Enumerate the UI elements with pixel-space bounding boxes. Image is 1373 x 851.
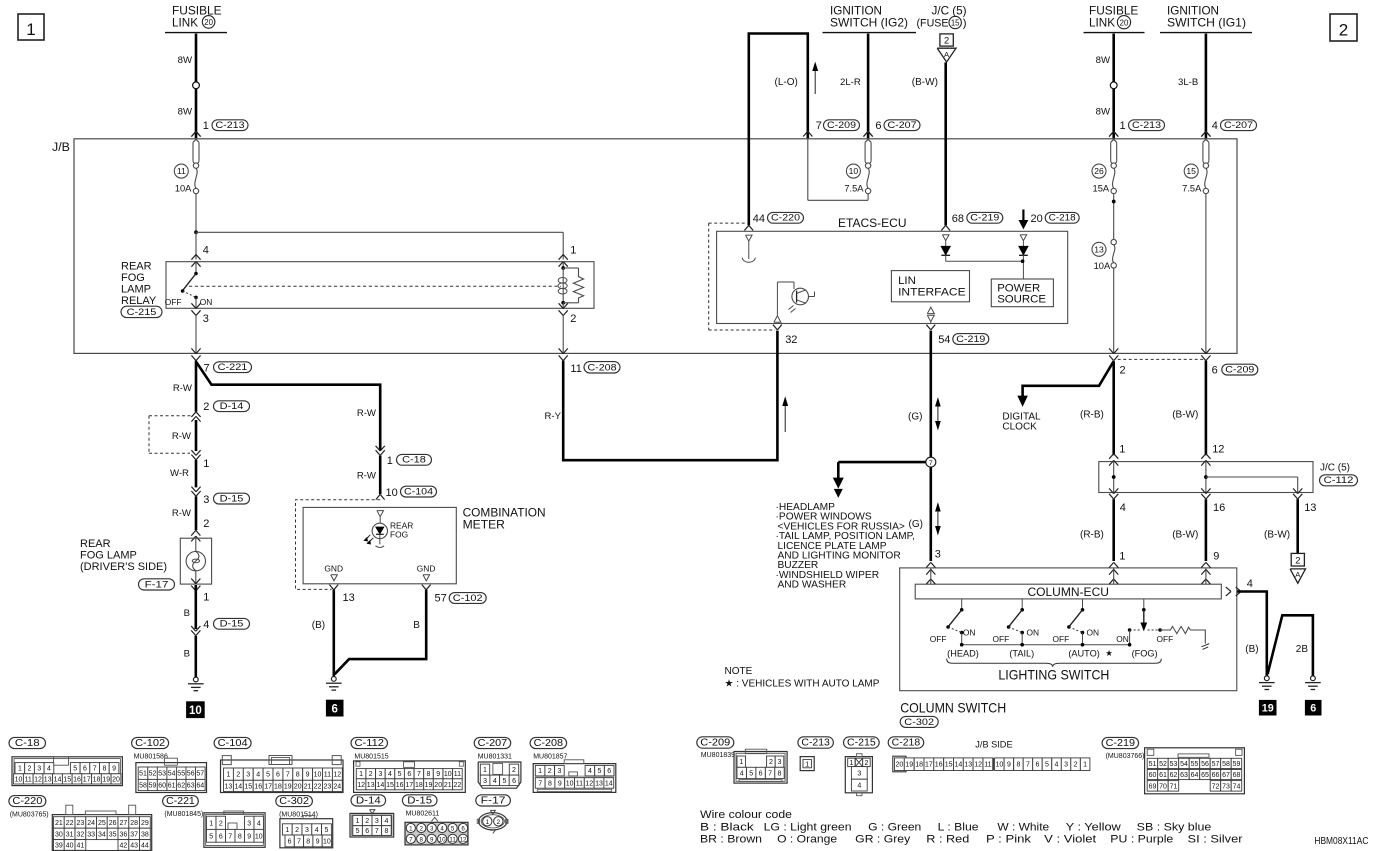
- svg-text:24: 24: [87, 820, 95, 827]
- svg-text:1: 1: [538, 768, 542, 775]
- svg-text:32: 32: [77, 831, 85, 838]
- svg-text:23: 23: [324, 783, 332, 790]
- svg-text:10: 10: [255, 833, 263, 840]
- svg-text:2: 2: [570, 313, 576, 325]
- svg-text:6: 6: [1212, 364, 1218, 376]
- svg-text:54: 54: [938, 334, 950, 346]
- svg-text:OFF: OFF: [165, 297, 182, 307]
- connector C-18 pin 1 inline arrows: [376, 446, 432, 467]
- svg-text:(MU801845): (MU801845): [164, 811, 203, 818]
- svg-text:(HEAD): (HEAD): [947, 648, 979, 658]
- svg-text:3: 3: [37, 766, 41, 773]
- page number box 2: [1330, 14, 1357, 41]
- pin 4 label relay: [203, 244, 209, 256]
- svg-text:4: 4: [740, 771, 744, 778]
- svg-text:3: 3: [203, 494, 209, 506]
- connector diagram C-302: [276, 796, 333, 848]
- svg-text:7: 7: [375, 828, 379, 835]
- lamp entry arrows: [191, 530, 200, 541]
- svg-text:C-112: C-112: [1324, 475, 1354, 486]
- svg-text:9: 9: [1213, 551, 1219, 563]
- svg-text:62: 62: [1170, 772, 1178, 779]
- connector diagram C-207: [474, 737, 521, 788]
- svg-text:1: 1: [26, 20, 35, 39]
- svg-text:2: 2: [236, 772, 240, 779]
- svg-text:3: 3: [483, 778, 487, 785]
- svg-text:2: 2: [944, 35, 949, 46]
- svg-text:60: 60: [1149, 772, 1157, 779]
- svg-text:(FOG): (FOG): [1132, 648, 1158, 658]
- svg-text:5: 5: [1045, 762, 1049, 769]
- wire 8W fusible link to J/B pin 1 C-213: [178, 34, 200, 139]
- column pin 1 entry arrows: [1109, 551, 1125, 585]
- svg-text:12: 12: [585, 781, 593, 788]
- node below fuse 26: [1112, 194, 1116, 239]
- pin 2 label rear fog lamp: [203, 518, 209, 530]
- svg-text:5: 5: [749, 771, 753, 778]
- svg-text:C-218: C-218: [892, 738, 921, 749]
- svg-text:1: 1: [570, 244, 576, 256]
- svg-text:(DRIVER'S SIDE): (DRIVER'S SIDE): [80, 561, 167, 573]
- svg-text:J/C (5): J/C (5): [1320, 462, 1350, 473]
- svg-text:7.5A: 7.5A: [844, 184, 864, 194]
- ETACS-ECU dashed boundary: [709, 223, 775, 330]
- svg-text:10: 10: [439, 836, 446, 843]
- ETACS pin 54 C-219 exit: [926, 325, 988, 346]
- wire B pin 57 to ground: [335, 590, 427, 674]
- wire (G) ETACS pin 54 down to node 7: [929, 331, 932, 458]
- wire (B-W) to ETACS pin 68: [912, 62, 946, 225]
- wire R-Y C-208 to ETACS pin 32: [544, 331, 777, 461]
- svg-text:(B): (B): [312, 620, 325, 631]
- svg-text:44: 44: [141, 843, 149, 850]
- svg-text:2: 2: [865, 760, 869, 767]
- wire B to ground 10: [184, 636, 196, 677]
- svg-text:64: 64: [1191, 772, 1199, 779]
- node junction at fuse11 output: [194, 230, 198, 234]
- svg-text:7: 7: [929, 460, 933, 467]
- wire R-W variant section: [172, 420, 196, 451]
- wire node down to relay pin 4: [195, 232, 197, 259]
- signal direction arrow up: [813, 64, 817, 95]
- svg-text:11: 11: [984, 762, 991, 769]
- svg-text:14: 14: [54, 776, 62, 783]
- svg-text:4: 4: [257, 820, 261, 827]
- svg-text:10: 10: [189, 705, 202, 717]
- ground symbol 6 right: [1305, 676, 1321, 690]
- svg-text:3L-B: 3L-B: [1178, 77, 1198, 88]
- ground symbol 19: [1259, 676, 1275, 690]
- svg-text:11: 11: [324, 772, 331, 779]
- svg-text:6: 6: [83, 766, 87, 773]
- svg-text:12: 12: [460, 836, 467, 843]
- svg-text:5: 5: [266, 772, 270, 779]
- svg-text:6: 6: [512, 778, 516, 785]
- svg-text:1: 1: [483, 767, 487, 774]
- svg-text:14: 14: [955, 762, 963, 769]
- svg-text:METER: METER: [463, 520, 505, 532]
- svg-text:OFF: OFF: [930, 634, 947, 644]
- svg-text:21: 21: [444, 782, 452, 789]
- label REAR FOG LAMP (DRIVERS SIDE): [80, 538, 167, 573]
- svg-text:Y : Yellow: Y : Yellow: [1066, 822, 1121, 834]
- svg-text:62: 62: [177, 783, 185, 790]
- svg-text:13: 13: [367, 782, 375, 789]
- svg-text:C-207: C-207: [478, 738, 508, 749]
- svg-text:4: 4: [256, 772, 260, 779]
- ETACS pin 44 internal antenna symbol: [742, 235, 755, 262]
- svg-text:2: 2: [203, 518, 209, 530]
- svg-text:57: 57: [1212, 761, 1220, 768]
- svg-text:ON: ON: [200, 297, 213, 307]
- svg-text:1: 1: [203, 592, 209, 604]
- svg-text:FOG: FOG: [390, 529, 408, 539]
- fuse 13 10A in J/B: [1092, 239, 1116, 270]
- svg-text:B: B: [413, 620, 420, 631]
- svg-text:63: 63: [187, 783, 195, 790]
- svg-text:1: 1: [209, 820, 213, 827]
- ETACS-ECU box: [717, 231, 1068, 323]
- svg-text:9: 9: [558, 781, 562, 788]
- relay switch contact: [181, 262, 198, 309]
- connector diagram C-213: [798, 737, 834, 771]
- svg-text:39: 39: [55, 843, 63, 850]
- pin 7 C-209 label: [816, 120, 860, 132]
- svg-text:70: 70: [1159, 783, 1167, 790]
- svg-text:(B-W): (B-W): [1172, 410, 1198, 421]
- svg-text:13: 13: [964, 762, 972, 769]
- svg-text:9: 9: [436, 771, 440, 778]
- svg-text:D-15: D-15: [220, 493, 244, 504]
- svg-text:1: 1: [285, 827, 289, 834]
- svg-text:22: 22: [454, 782, 462, 789]
- J/C pin 4 exit arrows: [1109, 488, 1126, 513]
- svg-text:61: 61: [1159, 772, 1167, 779]
- svg-text:GND: GND: [417, 563, 436, 573]
- svg-text:L : Blue: L : Blue: [938, 822, 979, 834]
- svg-text:15A: 15A: [1093, 184, 1110, 194]
- double arrow upper: [936, 399, 940, 429]
- svg-text:51: 51: [139, 771, 147, 778]
- svg-text:20: 20: [112, 776, 120, 783]
- wire 8W right fusible link to J/B pin 1 C-213: [1096, 34, 1117, 139]
- label DIGITAL CLOCK: [1002, 411, 1041, 432]
- svg-text:LINK: LINK: [172, 16, 198, 29]
- svg-text:C-221: C-221: [166, 796, 195, 807]
- junction reference box 2 top: [940, 34, 953, 46]
- svg-text:18: 18: [93, 776, 101, 783]
- svg-text:38: 38: [141, 831, 149, 838]
- svg-text:1: 1: [203, 458, 209, 470]
- svg-text:16: 16: [254, 783, 262, 790]
- svg-text:17: 17: [925, 762, 933, 769]
- svg-text:68: 68: [952, 213, 964, 225]
- svg-text:14: 14: [234, 783, 242, 790]
- svg-text:4: 4: [1055, 762, 1059, 769]
- svg-text:C-213: C-213: [1132, 120, 1161, 131]
- svg-text:(MU803766): (MU803766): [1106, 753, 1145, 760]
- connector diagram C-18: [9, 737, 122, 785]
- label ON relay: [200, 297, 213, 307]
- ground reference box 19: [1259, 700, 1276, 715]
- LIN interface output triangles: [927, 307, 934, 323]
- svg-text:MU801839: MU801839: [701, 752, 735, 759]
- svg-text:65: 65: [1201, 772, 1209, 779]
- connector diagram C-209: [697, 737, 787, 783]
- svg-text:8: 8: [102, 766, 106, 773]
- svg-text:7: 7: [768, 771, 772, 778]
- connector D-15 pin 3 inline arrows: [191, 487, 249, 507]
- page number box 1: [18, 14, 44, 40]
- svg-text:2L-R: 2L-R: [840, 77, 861, 88]
- svg-text:R : Red: R : Red: [926, 833, 969, 845]
- svg-text:59: 59: [1233, 761, 1241, 768]
- svg-text:6: 6: [219, 833, 223, 840]
- svg-text:24: 24: [333, 783, 341, 790]
- svg-text:3: 3: [935, 548, 941, 560]
- label (G) upper: [908, 411, 922, 422]
- svg-text:17: 17: [264, 783, 272, 790]
- svg-text:): ): [963, 17, 967, 29]
- svg-text:(G): (G): [909, 519, 923, 530]
- svg-text:20: 20: [294, 783, 302, 790]
- lamp exit arrows pin 1: [191, 579, 209, 604]
- svg-text:OFF: OFF: [1157, 634, 1174, 644]
- lighting switch TAIL: [993, 599, 1040, 645]
- svg-text:SI : Silver: SI : Silver: [1188, 833, 1243, 845]
- svg-text:1: 1: [18, 766, 22, 773]
- svg-text:6: 6: [461, 825, 465, 832]
- wire (R-B) J/C to column pin 1: [1080, 499, 1114, 561]
- column ECU pin 4 exit arrows: [1226, 578, 1253, 596]
- svg-text:17: 17: [83, 776, 91, 783]
- svg-text:60: 60: [158, 783, 166, 790]
- svg-text:COLUMN-ECU: COLUMN-ECU: [1027, 585, 1109, 599]
- svg-text:32: 32: [785, 334, 797, 346]
- svg-text:4: 4: [1120, 502, 1126, 514]
- ETACS pin 32 exit: [773, 325, 797, 347]
- svg-text:15: 15: [386, 782, 394, 789]
- svg-text:19: 19: [905, 762, 913, 769]
- dashed link between pin2 and pin6: [1118, 358, 1204, 360]
- svg-text:OFF: OFF: [993, 634, 1010, 644]
- svg-text:11: 11: [449, 836, 456, 843]
- note text: [725, 666, 880, 689]
- ground reference box 10: [187, 702, 205, 718]
- block LIN INTERFACE: [891, 271, 969, 302]
- connector arrow pin1 C-213 into J/B: [191, 131, 200, 136]
- svg-text:1: 1: [739, 759, 743, 766]
- svg-text:P : Pink: P : Pink: [986, 833, 1032, 845]
- svg-text:11: 11: [454, 771, 461, 778]
- svg-text:11: 11: [177, 166, 186, 176]
- lighting switch AUTO: [1053, 599, 1100, 645]
- svg-text:6: 6: [759, 771, 763, 778]
- junction reference box 2 bottom: [1291, 553, 1304, 566]
- svg-text:GND: GND: [324, 563, 343, 573]
- svg-text:14: 14: [377, 782, 385, 789]
- svg-text:MU801331: MU801331: [478, 753, 512, 760]
- svg-text:ON: ON: [1027, 628, 1040, 638]
- svg-text:63: 63: [1180, 772, 1188, 779]
- power source FUSIBLE LINK (20) left: [165, 4, 227, 32]
- svg-text:3: 3: [1064, 762, 1068, 769]
- label COMBINATION METER: [463, 508, 546, 532]
- svg-text:8: 8: [238, 833, 242, 840]
- svg-text:22: 22: [314, 783, 322, 790]
- connector diagram D-14: [350, 795, 394, 837]
- svg-text:51: 51: [1149, 761, 1157, 768]
- svg-text:37: 37: [130, 831, 138, 838]
- svg-text:C-207: C-207: [888, 120, 917, 131]
- svg-text:1: 1: [485, 819, 489, 826]
- ETACS pin 68 internal diode: [941, 235, 1022, 261]
- svg-text:8W: 8W: [178, 107, 193, 118]
- svg-text:10: 10: [444, 771, 452, 778]
- svg-text:12: 12: [974, 762, 982, 769]
- svg-text:D-14: D-14: [356, 795, 381, 806]
- relay pin 2 connector arrows: [559, 303, 577, 325]
- svg-text:SWITCH (IG1): SWITCH (IG1): [1167, 16, 1246, 29]
- svg-text:11: 11: [570, 363, 581, 375]
- svg-text:2: 2: [295, 827, 299, 834]
- svg-text:5: 5: [398, 771, 402, 778]
- svg-text:57: 57: [196, 771, 204, 778]
- junction triangle A bottom: [1290, 569, 1305, 583]
- svg-text:74: 74: [1233, 783, 1241, 790]
- svg-text:BR : Brown: BR : Brown: [700, 833, 762, 845]
- wire R-W C-18 to C-104: [357, 408, 380, 494]
- svg-text:41: 41: [77, 843, 85, 850]
- svg-text:56: 56: [187, 771, 195, 778]
- wire R-W to lamp pin 2: [172, 496, 196, 530]
- power source J/C(5) (FUSE 15): [917, 4, 967, 29]
- svg-text:52: 52: [149, 771, 157, 778]
- svg-text:5: 5: [502, 778, 506, 785]
- ground symbol left: [188, 677, 204, 691]
- svg-text:OFF: OFF: [1053, 634, 1070, 644]
- svg-text:58: 58: [1222, 761, 1230, 768]
- svg-text:C-213: C-213: [216, 120, 245, 131]
- svg-text:LIGHTING SWITCH: LIGHTING SWITCH: [998, 667, 1109, 682]
- wire (B-W) J/C pin 13 to junction 2A: [1264, 499, 1298, 553]
- svg-text:1: 1: [226, 772, 230, 779]
- svg-text:13: 13: [225, 783, 233, 790]
- svg-text:13: 13: [44, 776, 52, 783]
- ground symbol meter: [326, 677, 342, 691]
- svg-text:8: 8: [427, 771, 431, 778]
- svg-text:12: 12: [357, 782, 365, 789]
- svg-text:6: 6: [365, 828, 369, 835]
- svg-text:(G): (G): [908, 411, 922, 422]
- svg-text:33: 33: [87, 831, 95, 838]
- svg-text:73: 73: [1222, 783, 1230, 790]
- connector label C-215: [121, 306, 162, 318]
- svg-text:8: 8: [306, 838, 310, 845]
- svg-text:64: 64: [196, 783, 204, 790]
- svg-text:RELAY: RELAY: [121, 295, 157, 307]
- svg-text:2: 2: [369, 771, 373, 778]
- svg-text:C-207: C-207: [1224, 120, 1253, 131]
- label J/C (5) C-112: [1320, 462, 1358, 486]
- svg-text:42: 42: [120, 843, 128, 850]
- svg-text:V : Violet: V : Violet: [1044, 833, 1096, 845]
- connector diagram C-104: [214, 737, 343, 792]
- svg-text:C-209: C-209: [700, 738, 730, 749]
- svg-text:LAMP: LAMP: [121, 283, 151, 295]
- svg-text:69: 69: [1149, 783, 1157, 790]
- connector diagram C-219: [1102, 737, 1244, 793]
- ETACS pin 20 C-218 entry arrow: [1019, 210, 1079, 229]
- meter internal wire to indicator LED: [377, 511, 384, 524]
- svg-text:C-104: C-104: [404, 486, 434, 497]
- svg-text:C-220: C-220: [12, 796, 42, 807]
- svg-text:31: 31: [66, 831, 74, 838]
- svg-text:2: 2: [219, 820, 223, 827]
- svg-text:4: 4: [47, 766, 51, 773]
- svg-text:C-102: C-102: [135, 738, 165, 749]
- svg-text:15: 15: [945, 762, 953, 769]
- J/C pin 1 entry arrows: [1109, 443, 1125, 465]
- column switch C-302 box: [900, 568, 1237, 691]
- svg-text:4: 4: [203, 244, 209, 256]
- connector diagram C-218 J/B SIDE: [888, 737, 1090, 772]
- wire (R-B) pin2 down to J/C pin 1: [1080, 361, 1114, 455]
- svg-text:C-302: C-302: [279, 796, 309, 807]
- svg-text:7: 7: [1026, 762, 1030, 769]
- svg-text:2: 2: [1295, 554, 1300, 565]
- svg-text:2: 2: [496, 819, 500, 826]
- svg-text:7: 7: [297, 838, 301, 845]
- svg-text:22: 22: [66, 820, 74, 827]
- svg-text:27: 27: [120, 820, 128, 827]
- svg-text:19: 19: [284, 783, 292, 790]
- svg-text:20: 20: [896, 762, 904, 769]
- wire fuse15 to J/B bottom: [1205, 194, 1207, 353]
- svg-text:LG : Light green: LG : Light green: [764, 822, 852, 834]
- svg-text:2: 2: [365, 818, 369, 825]
- svg-text:55: 55: [177, 771, 185, 778]
- wire B lamp to D-15 pin 4: [184, 585, 196, 629]
- svg-text:9: 9: [247, 833, 251, 840]
- indicator LED REAR FOG: [365, 523, 388, 547]
- connector pin 6 C-209 exit of J/B: [1201, 348, 1258, 376]
- svg-text:43: 43: [130, 843, 138, 850]
- svg-text:21: 21: [55, 820, 63, 827]
- svg-text:C-302: C-302: [904, 717, 934, 728]
- svg-text:SWITCH (IG2): SWITCH (IG2): [830, 16, 908, 29]
- connector diagram C-112: [351, 737, 465, 792]
- svg-text:13: 13: [1304, 502, 1316, 514]
- meter exit fork pin 57 C-102: [422, 585, 486, 605]
- svg-text:8W: 8W: [1096, 107, 1111, 118]
- svg-text:7: 7: [228, 833, 232, 840]
- svg-text:ON: ON: [963, 628, 976, 638]
- svg-text:C-220: C-220: [771, 213, 800, 224]
- svg-text:INTERFACE: INTERFACE: [898, 286, 966, 298]
- svg-text:9: 9: [316, 838, 320, 845]
- svg-text:11: 11: [576, 781, 583, 788]
- svg-text:13: 13: [595, 781, 603, 788]
- svg-text:3: 3: [857, 770, 861, 777]
- wire branch to digital clock: [1018, 361, 1113, 405]
- ETACS pin 68 C-219 entry: [941, 212, 1003, 230]
- svg-text:5: 5: [598, 768, 602, 775]
- svg-text:1: 1: [356, 818, 360, 825]
- svg-text:7: 7: [417, 771, 421, 778]
- svg-text:5: 5: [451, 825, 455, 832]
- lighting switch HEAD: [930, 599, 976, 645]
